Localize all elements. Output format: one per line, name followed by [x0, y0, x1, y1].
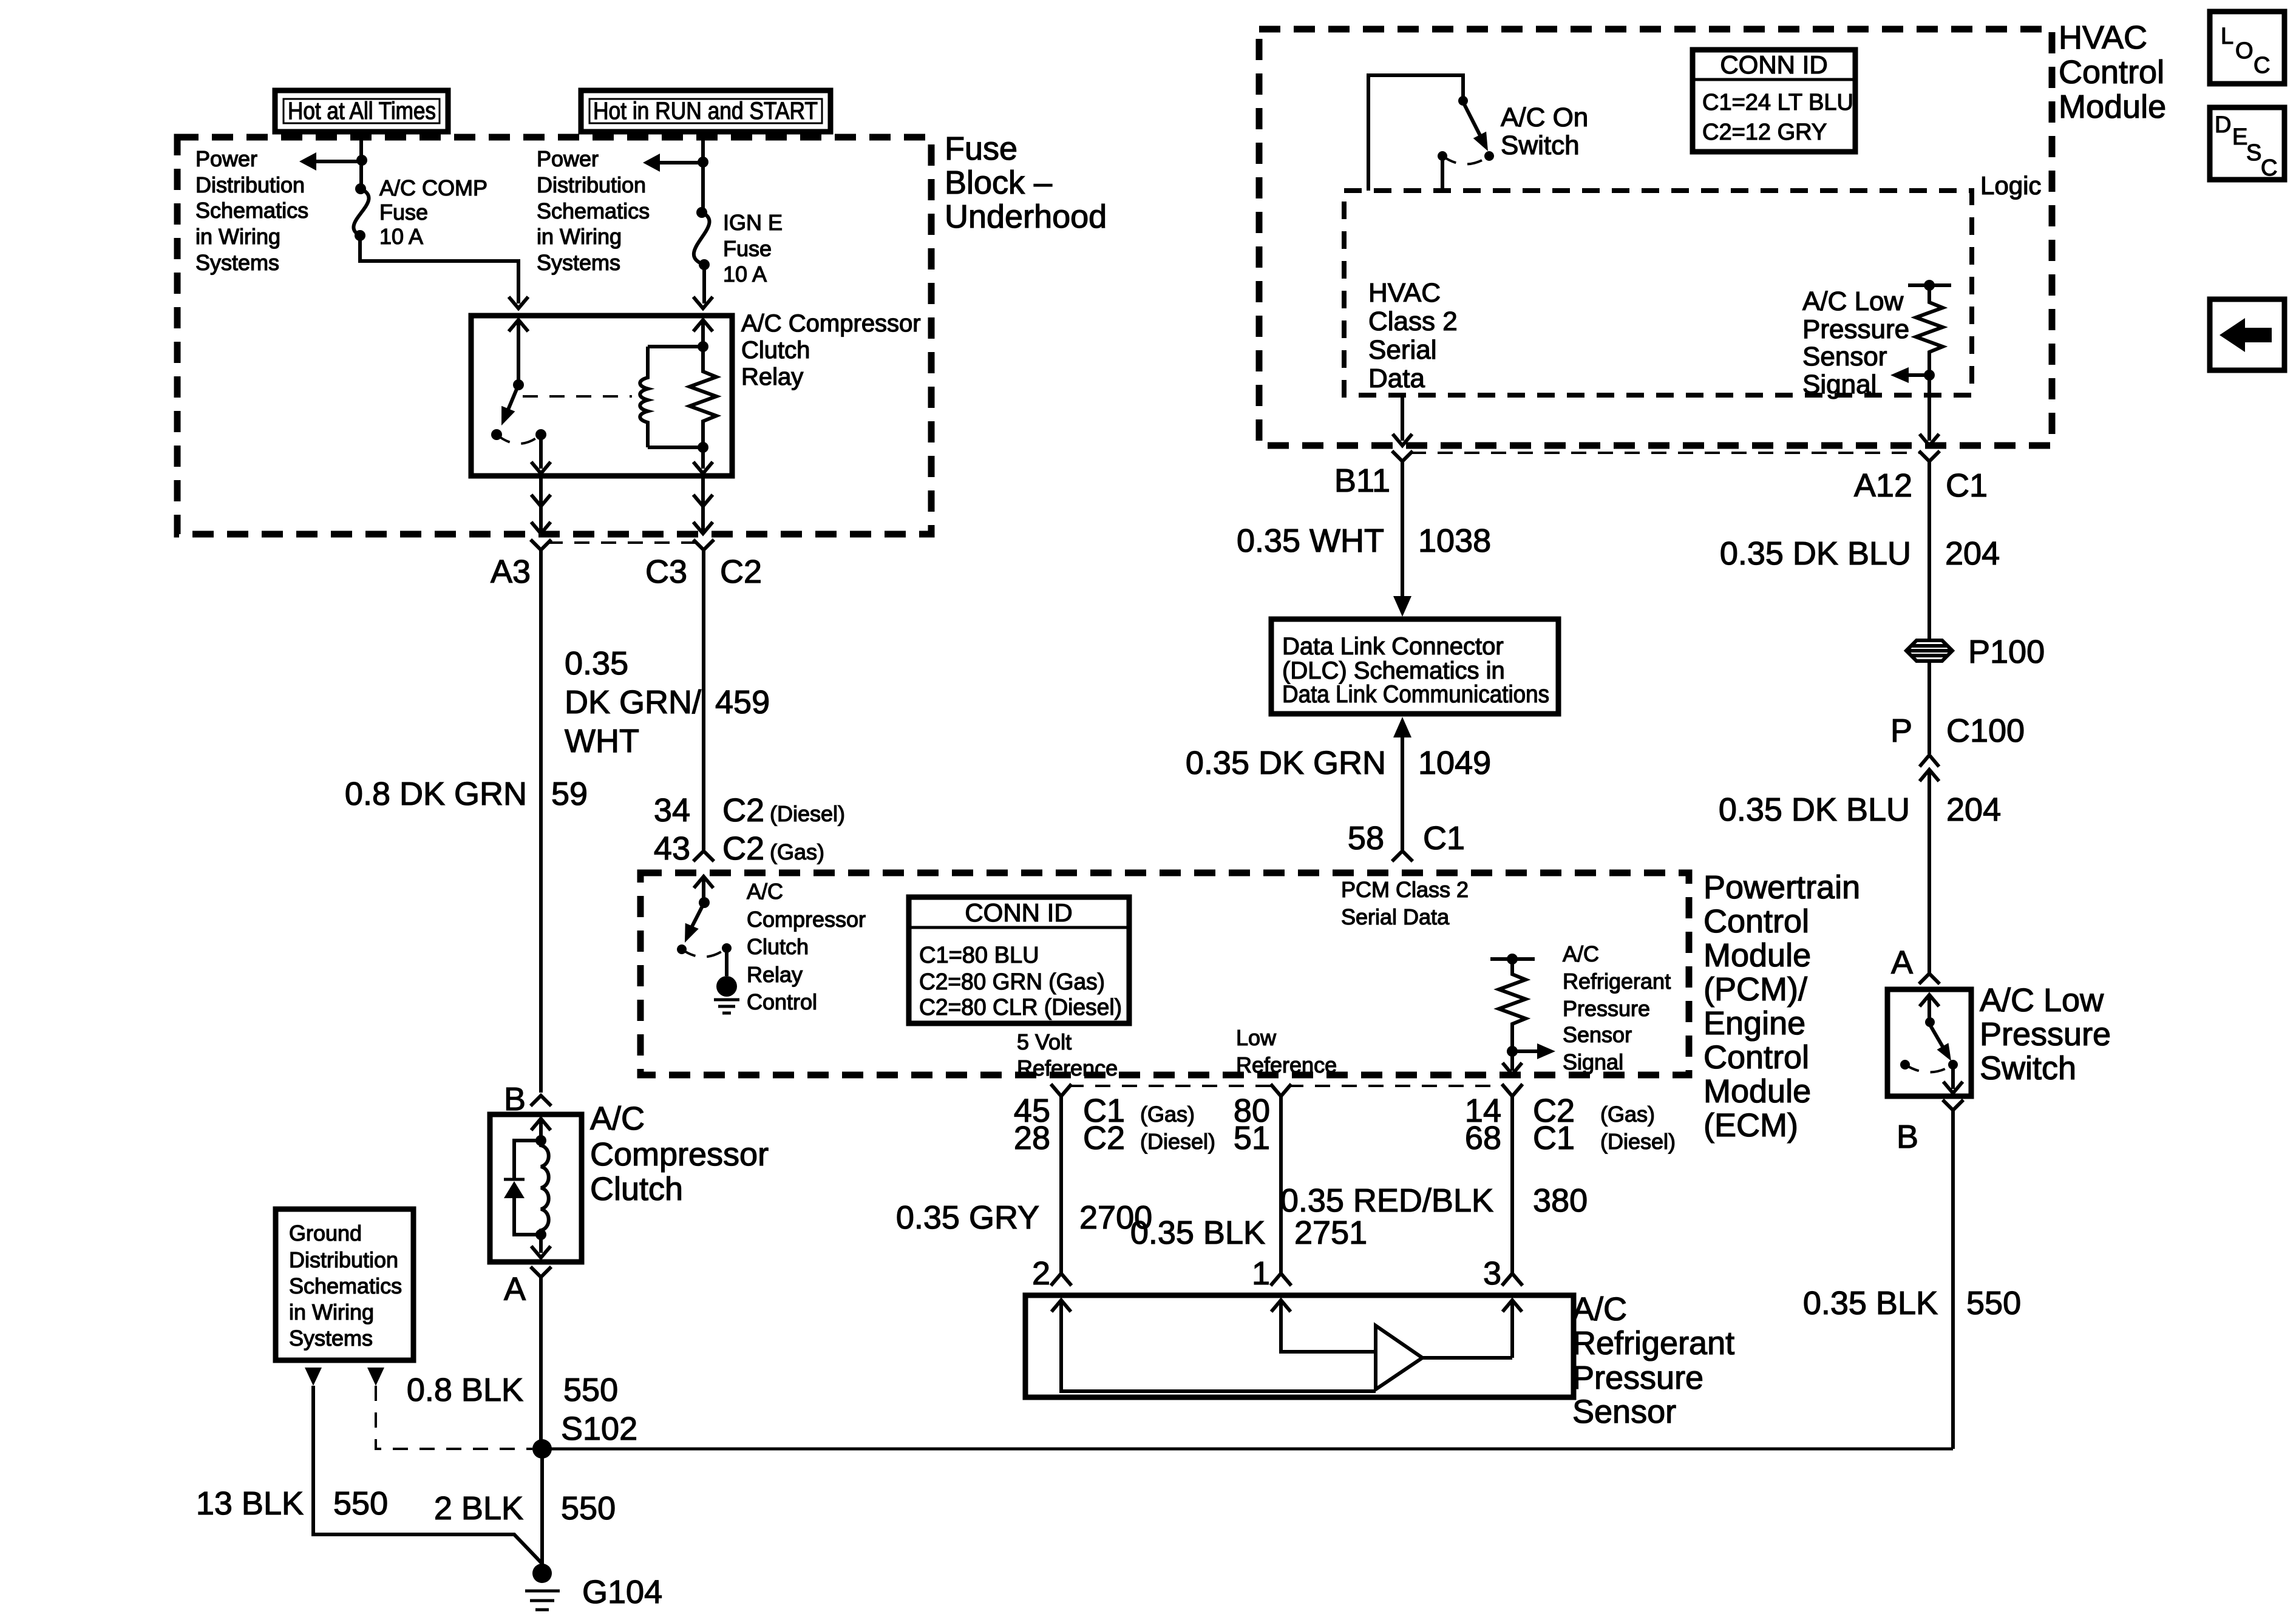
- svg-text:A12: A12: [1854, 467, 1912, 504]
- svg-text:HVAC: HVAC: [2059, 19, 2147, 56]
- svg-text:Serial Data: Serial Data: [1341, 904, 1450, 929]
- connector C3 fork: [693, 540, 714, 550]
- svg-text:10 A: 10 A: [723, 262, 767, 286]
- wire: relay output to pin: [539, 435, 543, 469]
- svg-text:58: 58: [1348, 820, 1384, 856]
- svg-text:2: 2: [1032, 1255, 1050, 1292]
- wire: 0.35 DK BLU 204 (upper): [1927, 461, 1931, 640]
- svg-text:A/C: A/C: [747, 879, 783, 904]
- relay switch pin 30 entry: [509, 320, 528, 331]
- svg-text:C: C: [2261, 155, 2277, 181]
- inline connector P100: [1906, 640, 1952, 661]
- svg-text:59: 59: [551, 776, 588, 812]
- svg-text:E: E: [2232, 124, 2247, 150]
- svg-text:Module: Module: [2059, 89, 2166, 125]
- svg-text:0.35: 0.35: [565, 645, 628, 682]
- svg-text:C3: C3: [645, 554, 687, 590]
- svg-text:Systems: Systems: [289, 1326, 373, 1351]
- svg-text:Clutch: Clutch: [590, 1171, 683, 1207]
- svg-text:Refrigerant: Refrigerant: [1563, 969, 1671, 994]
- svg-text:Control: Control: [1703, 903, 1809, 940]
- svg-text:Compressor: Compressor: [747, 907, 866, 932]
- clutch suppression diode D1: [514, 1141, 541, 1235]
- svg-text:Pressure: Pressure: [1802, 314, 1909, 344]
- svg-text:C1: C1: [1946, 467, 1988, 504]
- svg-text:(Diesel): (Diesel): [1140, 1129, 1215, 1154]
- wire: sensor signal exit: [1927, 375, 1931, 441]
- relay switch throw arc (dashed): [497, 435, 541, 444]
- wire: amp output: [1422, 1356, 1512, 1360]
- svg-text:(Gas): (Gas): [770, 839, 824, 864]
- svg-text:CONN ID: CONN ID: [965, 898, 1072, 927]
- svg-text:2 BLK: 2 BLK: [434, 1490, 523, 1527]
- wire: ignition feed from Hot in RUN and START: [701, 132, 705, 212]
- arrow: sensor signal into PCM: [1512, 1049, 1540, 1053]
- svg-text:A/C: A/C: [1572, 1291, 1627, 1327]
- svg-text:0.35 DK BLU: 0.35 DK BLU: [1720, 535, 1911, 572]
- icon: back arrow box: [2210, 299, 2284, 370]
- svg-text:C1: C1: [1533, 1120, 1575, 1156]
- svg-text:Control: Control: [747, 989, 817, 1014]
- resistor: A/C Low Pressure Sensor pull-up: [1908, 283, 1951, 287]
- wire: 0.35 WHT 1038: [1401, 461, 1404, 600]
- svg-text:550: 550: [563, 1372, 618, 1408]
- wire: IGN E fuse to relay: [702, 265, 706, 303]
- node: battery feed junction: [356, 155, 367, 166]
- connector fork: PCM pin 14/68: [1502, 1084, 1523, 1096]
- switch: A/C On Switch: [1368, 75, 1463, 191]
- wire: signal 0.35 RED/BLK 380: [1510, 1096, 1514, 1273]
- svg-text:Sensor: Sensor: [1563, 1022, 1632, 1047]
- svg-text:A/C Compressor: A/C Compressor: [741, 310, 921, 337]
- svg-text:WHT: WHT: [565, 723, 639, 759]
- svg-text:Distribution: Distribution: [537, 172, 646, 197]
- svg-text:A/C: A/C: [590, 1100, 645, 1137]
- svg-text:Relay: Relay: [741, 364, 803, 390]
- connector fork: PCM pin 80/51: [1271, 1084, 1291, 1096]
- ground symbol: [714, 1000, 739, 1013]
- svg-text:Distribution: Distribution: [195, 172, 305, 197]
- svg-text:A/C Low: A/C Low: [1802, 286, 1904, 316]
- logic box (dashed): [1344, 191, 1972, 395]
- svg-text:204: 204: [1945, 535, 2000, 572]
- DLC reference box: [1271, 619, 1558, 714]
- fuse F2: IGN E Fuse 10 A: [694, 207, 710, 270]
- svg-text:34: 34: [654, 792, 690, 829]
- svg-text:5 Volt: 5 Volt: [1017, 1029, 1072, 1054]
- svg-text:C1: C1: [1423, 820, 1465, 856]
- icon: LOC box: [2210, 12, 2284, 84]
- svg-text:C2=80 GRN (Gas): C2=80 GRN (Gas): [919, 969, 1105, 995]
- svg-text:Schematics: Schematics: [195, 198, 308, 223]
- connector into PCM: fork + arrow: [693, 851, 714, 861]
- relay coil actuation dashed link: [523, 395, 632, 398]
- svg-text:C1=80 BLU: C1=80 BLU: [919, 943, 1039, 968]
- svg-text:0.35 BLK: 0.35 BLK: [1803, 1285, 1938, 1321]
- svg-text:Signal: Signal: [1802, 370, 1877, 399]
- svg-text:C100: C100: [1946, 713, 2025, 749]
- svg-text:1: 1: [1252, 1255, 1270, 1292]
- svg-text:Block –: Block –: [945, 164, 1052, 201]
- wire: low reference 0.35 BLK 2751: [1279, 1096, 1283, 1273]
- connector fork below switch: [1943, 1100, 1963, 1110]
- sensor pin entries: [1051, 1300, 1071, 1312]
- label box: Hot in RUN and START: [581, 90, 830, 132]
- svg-text:28: 28: [1014, 1120, 1050, 1156]
- svg-text:0.35 DK BLU: 0.35 DK BLU: [1719, 792, 1910, 828]
- svg-text:68: 68: [1465, 1120, 1501, 1156]
- wire to C100: [1927, 662, 1931, 754]
- component box: A/C Compressor Clutch: [490, 1114, 582, 1262]
- svg-text:B11: B11: [1334, 463, 1390, 499]
- wire: arrow to Power Distribution: [315, 160, 362, 163]
- svg-text:1038: 1038: [1418, 523, 1491, 559]
- svg-text:13 BLK: 13 BLK: [196, 1485, 304, 1522]
- svg-text:Engine: Engine: [1703, 1005, 1805, 1042]
- svg-text:Underhood: Underhood: [945, 198, 1107, 235]
- PCM switch: A/C Compressor Clutch Relay Control: [699, 897, 710, 908]
- svg-text:(Diesel): (Diesel): [1600, 1129, 1676, 1154]
- relay K1: A/C Compressor Clutch Relay box: [471, 316, 732, 476]
- svg-text:C2: C2: [720, 554, 762, 590]
- svg-text:Compressor: Compressor: [590, 1136, 769, 1173]
- svg-text:in Wiring: in Wiring: [195, 224, 280, 249]
- svg-text:(Gas): (Gas): [1600, 1102, 1655, 1127]
- svg-text:C2: C2: [722, 830, 764, 867]
- svg-text:Reference: Reference: [1017, 1056, 1118, 1080]
- svg-text:Ground: Ground: [289, 1221, 362, 1246]
- svg-text:G104: G104: [582, 1574, 662, 1610]
- wire: 0.35 BLK 550 to S102: [1951, 1110, 1955, 1449]
- connector fork: sensor pin 3: [1502, 1273, 1523, 1286]
- connector fork: sensor pin 1: [1271, 1273, 1291, 1286]
- svg-text:A/C On: A/C On: [1501, 103, 1588, 132]
- svg-text:Powertrain: Powertrain: [1703, 869, 1860, 906]
- svg-text:S102: S102: [561, 1411, 637, 1447]
- relay coil: [640, 347, 648, 447]
- svg-text:Module: Module: [1703, 937, 1811, 974]
- connector link dashed A3-C3: [548, 541, 697, 544]
- svg-text:Schematics: Schematics: [537, 198, 650, 223]
- arrow: ground distribution solid wire: [305, 1368, 322, 1386]
- svg-text:550: 550: [561, 1490, 616, 1527]
- svg-text:(PCM)/: (PCM)/: [1703, 971, 1807, 1008]
- svg-text:C: C: [2254, 53, 2270, 78]
- svg-text:Low: Low: [1236, 1025, 1277, 1050]
- module box: HVAC Control Module (dashed): [1259, 29, 2052, 446]
- PCM resistor: A/C Refrigerant Pressure Sensor internal: [1490, 957, 1535, 961]
- component box: A/C Refrigerant Pressure Sensor: [1025, 1295, 1574, 1397]
- svg-text:D: D: [2215, 112, 2231, 138]
- svg-text:Control: Control: [1703, 1039, 1809, 1076]
- svg-text:(ECM): (ECM): [1703, 1107, 1798, 1144]
- svg-text:1049: 1049: [1418, 745, 1491, 781]
- connector A3 fork: [531, 540, 551, 550]
- wire: battery feed from Hot at All Times: [359, 129, 363, 189]
- svg-text:Control: Control: [2059, 54, 2164, 90]
- svg-text:Signal: Signal: [1563, 1049, 1623, 1074]
- relay switch arm: [506, 385, 518, 414]
- svg-text:Refrigerant: Refrigerant: [1572, 1325, 1734, 1361]
- wire: 0.8 DK GRN 59: [539, 550, 543, 1093]
- clutch coil L1: [541, 1141, 549, 1235]
- CONN ID box (HVAC): [1693, 50, 1855, 152]
- node: ignition feed junction: [698, 157, 708, 168]
- svg-text:Logic: Logic: [1980, 171, 2041, 200]
- svg-text:0.35 WHT: 0.35 WHT: [1237, 523, 1384, 559]
- connector fork into clutch: [531, 1096, 551, 1106]
- arrow: ground distribution dashed wire: [367, 1368, 384, 1386]
- svg-text:459: 459: [715, 684, 770, 720]
- svg-text:43: 43: [654, 830, 690, 867]
- svg-text:A: A: [504, 1271, 526, 1307]
- svg-text:380: 380: [1533, 1182, 1588, 1219]
- svg-text:Switch: Switch: [1501, 131, 1580, 160]
- connector fork: sensor pin 2: [1051, 1273, 1072, 1286]
- svg-text:Pressure: Pressure: [1572, 1360, 1703, 1396]
- wire: 13 BLK 550: [313, 1386, 542, 1564]
- connector fork below clutch: [531, 1267, 551, 1277]
- relay coil suppression resistor: [693, 320, 713, 331]
- svg-text:0.35 BLK: 0.35 BLK: [1130, 1215, 1265, 1251]
- svg-text:Power: Power: [537, 146, 599, 171]
- svg-text:C2: C2: [1083, 1120, 1125, 1156]
- svg-text:C2=12 GRY: C2=12 GRY: [1702, 120, 1827, 145]
- svg-text:DK GRN/: DK GRN/: [565, 684, 701, 720]
- svg-text:Clutch: Clutch: [741, 337, 810, 364]
- svg-text:Sensor: Sensor: [1572, 1394, 1676, 1430]
- op-amp U1: sensor amplifier triangle: [1376, 1326, 1422, 1389]
- svg-text:Serial: Serial: [1368, 335, 1437, 365]
- wire: A/C COMP fuse to relay pin: [360, 236, 518, 303]
- switch internals: [1920, 995, 1939, 1006]
- svg-text:P100: P100: [1968, 634, 2045, 670]
- svg-text:PCM Class 2: PCM Class 2: [1341, 877, 1469, 902]
- wire: 0.35 DK BLU 204 (lower): [1927, 770, 1931, 974]
- svg-text:3: 3: [1483, 1255, 1501, 1292]
- svg-text:B: B: [1897, 1119, 1918, 1155]
- wire: 0.35 DK GRN 1049: [1393, 717, 1411, 737]
- wire: coil top rail: [648, 345, 703, 348]
- svg-text:Fuse: Fuse: [379, 200, 428, 225]
- svg-text:O: O: [2235, 38, 2254, 64]
- wire: 0.35 DK GRN/WHT 459: [702, 550, 705, 850]
- component box: A/C Low Pressure Switch: [1887, 989, 1971, 1096]
- svg-text:Relay: Relay: [747, 962, 803, 987]
- svg-text:Data Link Communications: Data Link Communications: [1282, 681, 1549, 708]
- inline connector C100 chevrons: [1920, 755, 1939, 767]
- svg-text:Pressure: Pressure: [1980, 1016, 2111, 1053]
- ground ball: relay control driver: [716, 976, 737, 997]
- wire: arrow to Power Distribution (right): [659, 161, 703, 164]
- svg-text:Systems: Systems: [537, 250, 620, 275]
- relay contact (NO): [491, 429, 502, 440]
- svg-text:L: L: [2221, 24, 2233, 49]
- svg-text:IGN E: IGN E: [723, 210, 783, 235]
- svg-text:Switch: Switch: [1980, 1050, 2076, 1086]
- module box: Fuse Block - Underhood: [177, 137, 931, 534]
- svg-text:Fuse: Fuse: [723, 236, 772, 261]
- svg-text:in Wiring: in Wiring: [289, 1300, 374, 1324]
- svg-text:C1=24 LT BLU: C1=24 LT BLU: [1702, 90, 1853, 115]
- icon: DESC box: [2210, 107, 2284, 181]
- svg-text:(Diesel): (Diesel): [770, 801, 845, 826]
- svg-text:Pressure: Pressure: [1563, 996, 1650, 1021]
- wire: 0.8 BLK 550 to S102: [539, 1277, 543, 1449]
- svg-text:Reference: Reference: [1236, 1053, 1337, 1077]
- wire: dashed branch to S102: [376, 1386, 532, 1449]
- relay switch pivot: [513, 379, 524, 390]
- svg-text:A/C: A/C: [1563, 941, 1599, 966]
- connector link dashed along PCM bottom: [1068, 1085, 1505, 1087]
- svg-text:0.35 RED/BLK: 0.35 RED/BLK: [1280, 1182, 1493, 1219]
- connector link dashed B11-A12: [1411, 452, 1920, 454]
- label box: Hot at All Times: [275, 90, 448, 132]
- svg-text:(Gas): (Gas): [1140, 1102, 1195, 1127]
- svg-text:550: 550: [333, 1485, 388, 1522]
- relay contact (switched output): [535, 429, 546, 440]
- svg-text:CONN ID: CONN ID: [1720, 50, 1827, 79]
- svg-text:in Wiring: in Wiring: [537, 224, 622, 249]
- svg-text:Schematics: Schematics: [289, 1273, 402, 1298]
- module box: PCM/ECM (dashed): [640, 873, 1689, 1075]
- svg-text:A/C COMP: A/C COMP: [379, 175, 487, 200]
- fuse F1: A/C COMP Fuse 10 A: [353, 183, 369, 241]
- svg-text:204: 204: [1946, 792, 2001, 828]
- svg-text:Hot in RUN and START: Hot in RUN and START: [593, 98, 818, 124]
- svg-text:C2=80 CLR (Diesel): C2=80 CLR (Diesel): [919, 995, 1122, 1020]
- svg-text:0.35 GRY: 0.35 GRY: [896, 1199, 1039, 1236]
- svg-text:HVAC: HVAC: [1368, 278, 1441, 308]
- wire: relay out A3 to connector: [539, 476, 543, 534]
- svg-text:550: 550: [1966, 1285, 2021, 1321]
- connector fork: PCM pin 45/28: [1051, 1084, 1072, 1096]
- wire: relay coil out to C3/C2: [701, 476, 705, 534]
- CONN ID box (PCM): [909, 897, 1129, 1023]
- svg-text:A/C Low: A/C Low: [1980, 982, 2104, 1019]
- svg-text:Sensor: Sensor: [1802, 342, 1887, 371]
- ground G104: [532, 1564, 552, 1583]
- svg-text:Hot at All Times: Hot at All Times: [288, 98, 436, 124]
- svg-text:51: 51: [1234, 1120, 1270, 1156]
- wire: 5V reference 0.35 GRY 2700: [1059, 1096, 1063, 1273]
- svg-text:Data: Data: [1368, 364, 1425, 393]
- wire: HVAC class2 serial data exit: [1401, 395, 1404, 441]
- wire: S102 to A/C Low Pressure Switch B: [542, 1448, 1953, 1451]
- svg-text:Class 2: Class 2: [1368, 307, 1458, 336]
- wire: coil bottom rail: [648, 446, 703, 449]
- svg-text:S: S: [2246, 140, 2261, 166]
- svg-text:0.8 DK GRN: 0.8 DK GRN: [345, 776, 527, 812]
- svg-text:Module: Module: [1703, 1073, 1811, 1110]
- svg-text:2751: 2751: [1294, 1215, 1367, 1251]
- svg-text:10 A: 10 A: [379, 224, 423, 249]
- svg-text:Clutch: Clutch: [747, 934, 809, 959]
- svg-text:0.35 DK GRN: 0.35 DK GRN: [1186, 745, 1386, 781]
- splice S102: [532, 1439, 552, 1459]
- arrow: sensor signal (left): [1909, 373, 1929, 377]
- wire: 2 BLK 550 to G104: [540, 1449, 544, 1571]
- svg-text:Data Link Connector: Data Link Connector: [1282, 633, 1504, 660]
- svg-text:Systems: Systems: [195, 250, 279, 275]
- svg-text:A: A: [1891, 944, 1913, 981]
- svg-text:Power: Power: [195, 146, 257, 171]
- svg-text:C2: C2: [722, 792, 764, 829]
- svg-text:Fuse: Fuse: [945, 131, 1017, 167]
- connector into PCM: fork + arrow: [1392, 851, 1413, 861]
- label box: Ground Distribution Schematics in Wiring Systems: [276, 1209, 413, 1360]
- svg-text:P: P: [1890, 713, 1912, 749]
- svg-text:(DLC) Schematics in: (DLC) Schematics in: [1282, 657, 1505, 684]
- clutch pin B entry: [531, 1119, 551, 1130]
- svg-text:Distribution: Distribution: [289, 1247, 398, 1272]
- svg-text:A3: A3: [491, 554, 531, 590]
- wire to ground ball: [725, 948, 729, 976]
- svg-text:0.8 BLK: 0.8 BLK: [407, 1372, 523, 1408]
